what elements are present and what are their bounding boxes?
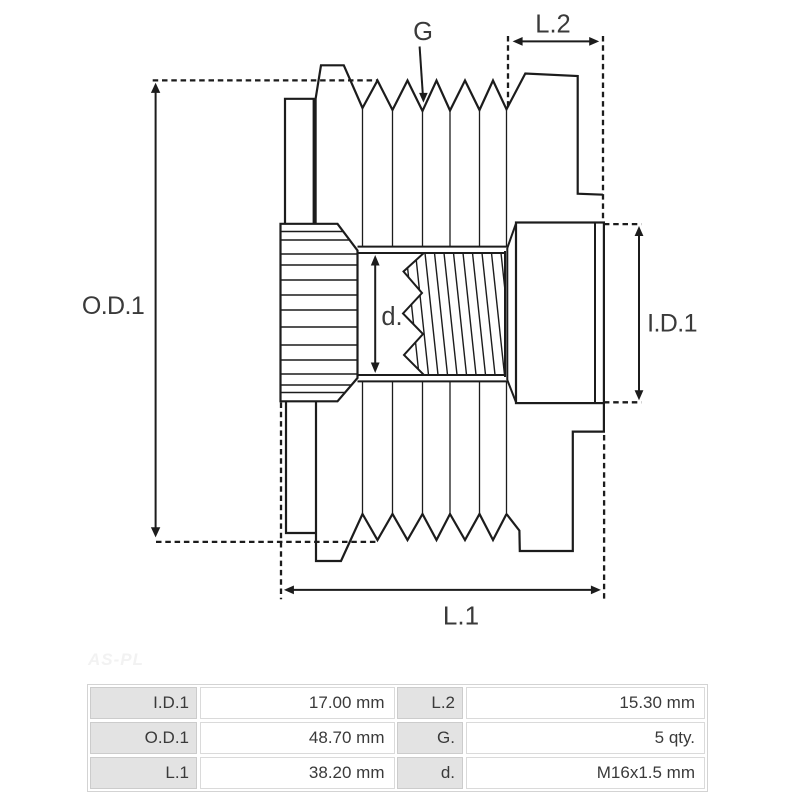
cylinder inner edge line (594, 223, 596, 404)
bore right edge (504, 251, 506, 377)
I.D. extension dashed line top (604, 223, 641, 225)
thread break zigzag (403, 253, 424, 375)
O.D. reference dashed line top (153, 79, 378, 81)
arrowhead d. bottom (371, 363, 380, 374)
bore chamfer bottom (507, 380, 516, 402)
svg-text:L.2: L.2 (535, 11, 570, 39)
L.1 extension dashed line left (280, 403, 282, 600)
arrowhead O.D.1 bottom (151, 527, 160, 537)
arrowhead L.2 right (589, 37, 599, 46)
bore chamfer top (507, 223, 516, 248)
left flange rib (bottom) (286, 402, 316, 533)
L.2 extension dashed line left (507, 36, 509, 108)
arrowhead d. top (371, 255, 380, 266)
hub bottom step outline (507, 403, 604, 551)
O.D. reference dashed line bottom (156, 541, 376, 543)
svg-text:L.1: L.1 (443, 601, 479, 631)
bore top edge lines (358, 246, 508, 248)
svg-text:d.: d. (381, 303, 402, 331)
groove bottom lines (bottom half) (363, 381, 507, 514)
arrowhead I.D.1 bottom (635, 390, 644, 400)
thread hatching (406, 253, 514, 375)
knurled bushing body (281, 224, 358, 401)
d. dimension arrow (374, 263, 376, 365)
I.D. extension dashed line bottom (604, 401, 641, 403)
arrowhead I.D.1 top (635, 226, 644, 236)
L.1 dimension arrow (292, 589, 593, 591)
groove bottom lines (top half) (363, 108, 507, 247)
specification table (87, 684, 708, 792)
bearing boss cylinder (516, 223, 604, 404)
pulley top outline with belt grooves and hub step (316, 65, 603, 224)
pulley bottom outline with belt grooves (316, 402, 507, 561)
arrowhead O.D.1 top (151, 83, 160, 93)
arrowhead G (419, 93, 428, 103)
bore bottom edge lines (358, 374, 506, 376)
L.2 dimension arrow (521, 40, 591, 42)
O.D.1 dimension arrow (155, 91, 157, 530)
G leader arrow (420, 47, 423, 95)
L.1 extension dashed line right (603, 435, 605, 599)
svg-text:O.D.1: O.D.1 (82, 292, 144, 320)
knurl serration lines (279, 232, 359, 393)
L.2 / right end extension dashed line (602, 36, 604, 222)
arrowhead L.1 left (284, 586, 294, 595)
arrowhead L.1 right (591, 586, 601, 595)
I.D.1 dimension arrow (638, 234, 640, 392)
svg-text:I.D.1: I.D.1 (647, 310, 697, 338)
arrowhead L.2 left (513, 37, 523, 46)
left flange rib (top) (285, 99, 314, 224)
faint watermark (88, 650, 144, 670)
svg-text:G: G (413, 18, 433, 46)
